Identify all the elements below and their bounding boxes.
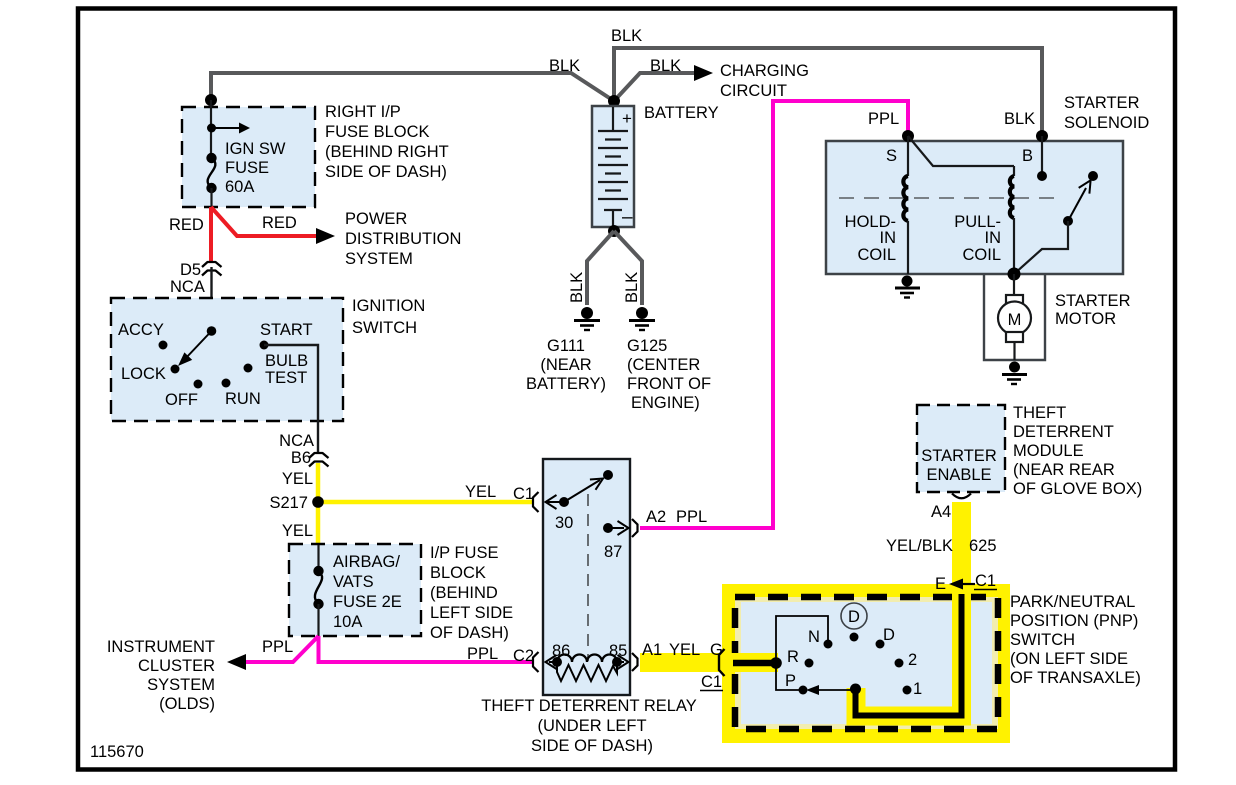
svg-text:BLK: BLK xyxy=(611,27,642,45)
wire BLK branch to charging circuit xyxy=(614,73,696,101)
connector A4 xyxy=(952,494,971,499)
svg-text:THEFT: THEFT xyxy=(1013,404,1066,422)
svg-text:SWITCH: SWITCH xyxy=(352,319,417,337)
connector bracket at PNP G xyxy=(719,649,725,676)
svg-text:BLK: BLK xyxy=(549,57,580,75)
PNP thin wire to P xyxy=(776,663,800,690)
solenoid dashed link line xyxy=(839,197,1064,199)
node ACCY contact xyxy=(159,341,168,350)
PNP switch arm arrow to P xyxy=(806,685,856,695)
svg-text:FUSE: FUSE xyxy=(225,159,269,177)
svg-text:SOLENOID: SOLENOID xyxy=(1064,114,1149,132)
svg-text:SIDE OF DASH): SIDE OF DASH) xyxy=(325,163,447,181)
svg-text:60A: 60A xyxy=(225,178,254,196)
ignition switch arm to LOCK xyxy=(185,331,212,359)
node LOCK contact xyxy=(171,365,180,374)
BLK core of YEL/BLK 625 wire inside PNP xyxy=(856,594,962,716)
svg-text:BULB: BULB xyxy=(265,352,308,370)
svg-text:AIRBAG/: AIRBAG/ xyxy=(333,553,400,571)
node START contact xyxy=(260,341,269,350)
svg-text:(BEHIND: (BEHIND xyxy=(430,584,498,602)
svg-text:FUSE 2E: FUSE 2E xyxy=(333,593,402,611)
ignition switch box xyxy=(111,298,343,421)
svg-text:–: – xyxy=(622,207,633,228)
svg-text:625: 625 xyxy=(969,537,997,555)
ground G111 xyxy=(574,307,600,330)
svg-text:PPL: PPL xyxy=(868,110,899,128)
svg-text:DISTRIBUTION: DISTRIBUTION xyxy=(345,230,461,248)
wire from START contact down xyxy=(264,345,318,452)
svg-text:PARK/NEUTRAL: PARK/NEUTRAL xyxy=(1010,593,1135,611)
svg-text:IGNITION: IGNITION xyxy=(352,297,425,315)
PNP dashed border xyxy=(735,597,998,729)
svg-text:D: D xyxy=(883,626,895,644)
svg-text:IGN SW: IGN SW xyxy=(225,140,286,158)
relay switch arm from 30 xyxy=(564,470,613,502)
svg-text:YEL: YEL xyxy=(465,483,496,501)
label C1 underlined at E xyxy=(974,572,997,590)
svg-text:FRONT OF: FRONT OF xyxy=(627,375,711,393)
node B terminal xyxy=(1036,130,1048,142)
svg-text:10A: 10A xyxy=(333,613,362,631)
wire RED branch to power distribution xyxy=(211,207,318,236)
node middle contact xyxy=(850,633,859,642)
starter motor bracket wires xyxy=(984,274,1045,360)
svg-text:SWITCH: SWITCH xyxy=(1010,631,1075,649)
wire BLK battery top to starter solenoid B xyxy=(614,48,1042,135)
svg-text:MODULE: MODULE xyxy=(1013,442,1084,460)
wire PPL to relay C2 xyxy=(319,636,533,662)
PNP switch highlighted box xyxy=(722,584,1010,743)
arrow to power distribution system xyxy=(316,228,335,244)
svg-text:PPL: PPL xyxy=(262,638,293,656)
relay divider dashed xyxy=(587,494,589,661)
solenoid contact switch xyxy=(1014,171,1098,274)
svg-text:87: 87 xyxy=(604,543,622,561)
circuit breaker tap arrow xyxy=(207,123,250,134)
svg-text:LEFT SIDE: LEFT SIDE xyxy=(430,604,513,622)
wire YEL/BLK 625 thick from module to PNP xyxy=(856,502,962,716)
svg-text:OFF: OFF xyxy=(165,391,198,409)
svg-text:C1: C1 xyxy=(701,673,722,691)
arrow to charging circuit xyxy=(694,65,713,81)
svg-text:BLK: BLK xyxy=(1004,110,1035,128)
svg-text:(NEAR: (NEAR xyxy=(540,356,591,374)
svg-text:2: 2 xyxy=(908,651,917,669)
node BULB TEST contact xyxy=(244,364,253,373)
svg-text:SYSTEM: SYSTEM xyxy=(147,676,215,694)
node battery negative junction xyxy=(608,225,620,237)
node R contact xyxy=(805,659,814,668)
battery BAT xyxy=(592,106,634,228)
svg-text:DETERRENT: DETERRENT xyxy=(1013,423,1114,441)
label C1 underlined at G xyxy=(700,673,723,691)
svg-text:NCA: NCA xyxy=(170,278,205,296)
svg-text:YEL/BLK: YEL/BLK xyxy=(886,537,953,555)
svg-text:STARTER: STARTER xyxy=(921,447,997,465)
svg-text:START: START xyxy=(260,321,313,339)
arrow to instrument cluster system xyxy=(227,654,246,670)
wire BLK from fuse block to battery junction xyxy=(211,73,614,101)
node contact feed dot xyxy=(850,684,861,695)
splice S217 xyxy=(312,496,324,508)
svg-text:IN: IN xyxy=(985,229,1002,247)
relay pin 86 arrow xyxy=(546,655,558,669)
arrow at E connector xyxy=(949,579,975,590)
svg-text:RED: RED xyxy=(262,214,297,232)
svg-text:RUN: RUN xyxy=(225,390,261,408)
svg-text:TEST: TEST xyxy=(265,369,307,387)
wire BLK to G125 xyxy=(614,231,642,305)
svg-text:86: 86 xyxy=(552,642,570,660)
pull-in coil winding xyxy=(1010,166,1014,274)
svg-text:BLK: BLK xyxy=(650,57,681,75)
svg-text:BATTERY: BATTERY xyxy=(644,104,719,122)
relay contact 87 with arrow xyxy=(603,521,629,535)
relay contact 30 with arrow to C1 xyxy=(546,495,570,509)
relay coil between 86 and 85 xyxy=(552,655,622,668)
svg-text:B6: B6 xyxy=(291,449,311,467)
svg-text:G: G xyxy=(710,641,723,659)
fuse AIRBAG/VATS 2E xyxy=(313,566,323,636)
svg-text:THEFT DETERRENT RELAY: THEFT DETERRENT RELAY xyxy=(481,697,696,715)
starter motor M xyxy=(998,274,1031,360)
svg-text:+: + xyxy=(622,109,632,128)
PNP thin wire to N xyxy=(776,616,828,663)
svg-text:RED: RED xyxy=(169,216,204,234)
svg-text:OF TRANSAXLE): OF TRANSAXLE) xyxy=(1010,669,1141,687)
svg-text:(BEHIND RIGHT: (BEHIND RIGHT xyxy=(325,143,449,161)
svg-text:(NEAR REAR: (NEAR REAR xyxy=(1013,461,1115,479)
svg-text:A1: A1 xyxy=(642,641,662,659)
svg-text:1: 1 xyxy=(913,680,922,698)
svg-text:115670: 115670 xyxy=(90,743,144,761)
circled D indicator xyxy=(841,603,867,629)
svg-text:ENABLE: ENABLE xyxy=(926,466,991,484)
node G junction xyxy=(770,657,782,669)
svg-text:OF DASH): OF DASH) xyxy=(430,624,509,642)
svg-text:PPL: PPL xyxy=(676,508,707,526)
svg-text:M: M xyxy=(1008,311,1022,329)
svg-text:A4: A4 xyxy=(931,503,951,521)
svg-text:BLK: BLK xyxy=(568,272,586,303)
svg-text:IN: IN xyxy=(880,229,897,247)
svg-text:B: B xyxy=(1022,147,1033,165)
I/P fuse block box (airbag) xyxy=(289,544,421,636)
connector bracket C2 at relay pin 86 xyxy=(533,652,539,672)
svg-text:STARTER: STARTER xyxy=(1064,94,1140,112)
svg-text:A2: A2 xyxy=(646,508,666,526)
svg-text:LOCK: LOCK xyxy=(121,365,166,383)
node P contact xyxy=(799,686,808,695)
svg-text:STARTER: STARTER xyxy=(1055,292,1131,310)
svg-text:POWER: POWER xyxy=(345,210,407,228)
ground G125 xyxy=(629,307,655,330)
svg-text:R: R xyxy=(787,648,799,666)
svg-text:S217: S217 xyxy=(269,494,308,512)
svg-text:G111: G111 xyxy=(547,337,585,355)
svg-text:POSITION (PNP): POSITION (PNP) xyxy=(1010,612,1138,630)
svg-text:BLK: BLK xyxy=(623,272,641,303)
svg-text:BLOCK: BLOCK xyxy=(430,564,486,582)
svg-text:85: 85 xyxy=(609,642,627,660)
B terminal stub xyxy=(1037,136,1047,181)
svg-text:G125: G125 xyxy=(627,337,667,355)
connector D5 xyxy=(202,262,222,276)
node N contact xyxy=(824,640,833,649)
wire YEL S217 down to fuse block xyxy=(316,502,321,545)
relay pin 85 arrow xyxy=(617,655,629,669)
svg-text:(ON LEFT SIDE: (ON LEFT SIDE xyxy=(1010,650,1128,668)
wire PPL to instrument cluster xyxy=(244,636,319,662)
wire RED down from fuse xyxy=(209,207,213,261)
svg-text:C1: C1 xyxy=(975,572,996,590)
svg-text:(UNDER LEFT: (UNDER LEFT xyxy=(537,717,646,735)
svg-text:SIDE OF DASH): SIDE OF DASH) xyxy=(531,737,653,755)
svg-text:P: P xyxy=(785,672,796,690)
node pull-in junction xyxy=(1008,268,1021,281)
wire YEL thick A1 from relay to PNP G xyxy=(640,653,778,672)
svg-text:CIRCUIT: CIRCUIT xyxy=(720,82,787,100)
node fuse block feed junction xyxy=(205,94,217,106)
connector bracket at relay pin 85 xyxy=(632,653,638,671)
resistor in relay (parallel with coil) xyxy=(557,662,617,681)
svg-text:CHARGING: CHARGING xyxy=(720,62,809,80)
node 2 contact xyxy=(895,659,904,668)
right I/P fuse block box xyxy=(182,107,315,207)
connector bracket at relay pin 87 xyxy=(632,519,638,537)
svg-text:YEL: YEL xyxy=(282,522,313,540)
wire inside airbag fuse box xyxy=(317,545,319,571)
svg-text:C1: C1 xyxy=(513,485,534,503)
svg-text:(OLDS): (OLDS) xyxy=(159,695,215,713)
wire PPL from relay 87 to solenoid S xyxy=(640,101,908,528)
svg-text:E: E xyxy=(935,575,946,593)
svg-text:MOTOR: MOTOR xyxy=(1055,310,1116,328)
connector B6 xyxy=(309,453,329,467)
wire YEL S217 to relay C1 xyxy=(318,500,532,505)
node battery positive junction xyxy=(608,95,620,107)
svg-text:VATS: VATS xyxy=(333,573,374,591)
node S terminal xyxy=(902,130,914,142)
svg-text:C2: C2 xyxy=(513,647,534,665)
svg-text:OF GLOVE BOX): OF GLOVE BOX) xyxy=(1013,480,1142,498)
node RUN contact xyxy=(222,379,231,388)
svg-text:D: D xyxy=(848,608,860,626)
wire inside fuse block xyxy=(210,100,212,158)
svg-text:YEL: YEL xyxy=(669,641,700,659)
svg-text:INSTRUMENT: INSTRUMENT xyxy=(107,638,215,656)
connector bracket C1 at relay pin 30 xyxy=(533,492,539,512)
svg-text:I/P FUSE: I/P FUSE xyxy=(430,544,498,562)
svg-text:SYSTEM: SYSTEM xyxy=(345,250,413,268)
svg-text:RIGHT I/P: RIGHT I/P xyxy=(325,103,401,121)
svg-text:30: 30 xyxy=(555,514,573,532)
svg-text:COIL: COIL xyxy=(962,246,1001,264)
svg-text:NCA: NCA xyxy=(279,432,314,450)
svg-text:S: S xyxy=(886,147,897,165)
node 1 contact xyxy=(903,686,912,695)
node D contact xyxy=(876,640,885,649)
wire YEL/BLK thick inside PNP xyxy=(856,593,962,716)
svg-text:ENGINE): ENGINE) xyxy=(631,394,700,412)
svg-text:(CENTER: (CENTER xyxy=(627,356,700,374)
svg-text:BATTERY): BATTERY) xyxy=(526,375,606,393)
svg-text:D5: D5 xyxy=(180,261,201,279)
theft deterrent module box STARTER ENABLE xyxy=(917,405,1005,492)
theft deterrent relay box xyxy=(543,459,630,695)
svg-text:ACCY: ACCY xyxy=(118,321,164,339)
svg-text:CLUSTER: CLUSTER xyxy=(138,657,215,675)
svg-text:N: N xyxy=(808,628,820,646)
node ignition switch pivot xyxy=(207,326,217,336)
svg-text:COIL: COIL xyxy=(857,246,896,264)
ground below hold-in coil xyxy=(895,276,920,298)
node OFF contact xyxy=(194,380,203,389)
hold-in coil winding xyxy=(903,136,908,274)
fuse IGN SW FUSE 60A xyxy=(206,153,216,207)
BLK core of G wire inside PNP xyxy=(733,660,776,667)
starter solenoid box xyxy=(826,141,1123,274)
wire NCA to ignition switch xyxy=(210,267,212,331)
wire BLK to G111 xyxy=(587,231,614,305)
wire YEL from B6 to S217 xyxy=(316,463,321,502)
svg-text:PPL: PPL xyxy=(467,645,498,663)
svg-text:FUSE BLOCK: FUSE BLOCK xyxy=(325,123,430,141)
svg-text:YEL: YEL xyxy=(282,470,313,488)
wire S to pull-in coil xyxy=(908,136,1014,166)
ground below starter motor xyxy=(1002,362,1027,385)
